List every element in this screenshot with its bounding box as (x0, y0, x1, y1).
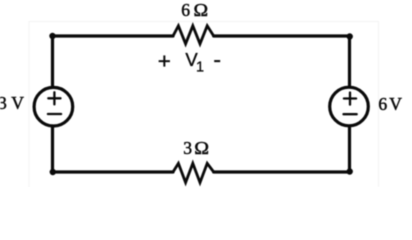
junction dot: top-left node (49, 33, 55, 39)
voltage label + V1 - (across 6 ohm resistor) (158, 46, 221, 75)
svg-text:6: 6 (181, 0, 190, 20)
svg-text:Ω: Ω (194, 0, 209, 20)
resistor 3 ohm (zigzag) (173, 163, 214, 182)
svg-text:1: 1 (196, 59, 204, 75)
wire: top, right segment (214, 34, 350, 37)
voltage source 3V (circle) (34, 87, 73, 126)
svg-text:+: + (158, 48, 171, 73)
polarity plus of 3V source (48, 97, 60, 99)
junction dot: bottom-left node (50, 169, 56, 175)
svg-text:V: V (11, 93, 24, 113)
polarity minus of 6V source (344, 113, 357, 115)
voltage source 6V (circle) (330, 87, 369, 126)
wire: left side, upper segment (51, 36, 54, 87)
junction dot: bottom-right node (347, 168, 353, 174)
polarity plus of 6V source (344, 97, 356, 99)
svg-text:3: 3 (183, 138, 192, 158)
wire: left side, lower segment (51, 126, 54, 172)
svg-text:6: 6 (378, 94, 387, 114)
wire: right side, upper segment (348, 36, 351, 87)
wire: bottom, right segment (214, 170, 350, 173)
wire: right side, lower segment (348, 126, 351, 172)
svg-text:-: - (213, 46, 221, 72)
resistor 6 ohm (zigzag) (173, 26, 214, 44)
wire: top, left segment (53, 34, 174, 37)
junction dot: top-right node (347, 33, 353, 39)
polarity minus of 3V source (48, 113, 61, 115)
svg-text:Ω: Ω (194, 138, 209, 158)
svg-text:3: 3 (0, 93, 7, 113)
wire: bottom, left segment (53, 170, 174, 173)
svg-text:V: V (389, 94, 402, 114)
